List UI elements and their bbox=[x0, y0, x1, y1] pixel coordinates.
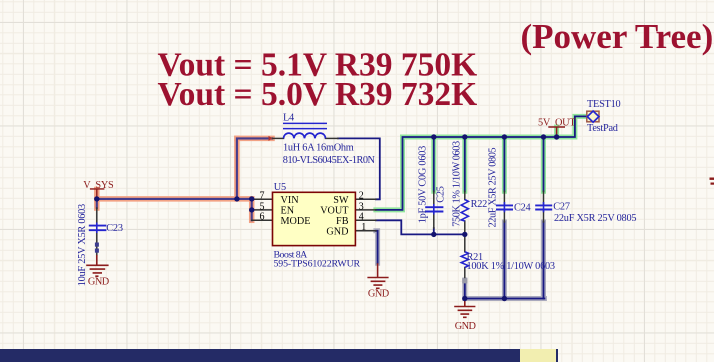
svg-text:SW: SW bbox=[333, 195, 349, 206]
svg-text:VIN: VIN bbox=[281, 195, 300, 206]
svg-text:L4: L4 bbox=[283, 113, 294, 124]
svg-text:10uF 25V X5R 0603: 10uF 25V X5R 0603 bbox=[77, 204, 88, 286]
svg-text:MODE: MODE bbox=[281, 216, 311, 227]
svg-text:GND: GND bbox=[88, 277, 110, 288]
svg-text:V_SYS: V_SYS bbox=[83, 180, 114, 191]
svg-text:22uF X5R 25V 0805: 22uF X5R 25V 0805 bbox=[487, 148, 498, 228]
svg-text:(Power Tree): (Power Tree) bbox=[521, 17, 714, 56]
svg-text:22uF X5R 25V 0805: 22uF X5R 25V 0805 bbox=[554, 213, 636, 224]
svg-text:U5: U5 bbox=[274, 182, 286, 193]
svg-text:1: 1 bbox=[361, 222, 366, 233]
svg-text:595-TPS61022RWUR: 595-TPS61022RWUR bbox=[274, 259, 361, 270]
svg-text:750K 1% 1/10W 0603: 750K 1% 1/10W 0603 bbox=[452, 141, 463, 227]
svg-text:Vout = 5.0V R39 732K: Vout = 5.0V R39 732K bbox=[158, 76, 478, 113]
svg-text:TestPad: TestPad bbox=[587, 123, 619, 134]
svg-text:GND: GND bbox=[368, 288, 390, 299]
svg-text:6: 6 bbox=[260, 212, 265, 223]
svg-text:C23: C23 bbox=[106, 223, 123, 234]
svg-text:R22: R22 bbox=[471, 199, 488, 210]
svg-text:7: 7 bbox=[260, 191, 265, 202]
svg-text:C25: C25 bbox=[436, 186, 447, 203]
svg-text:3: 3 bbox=[359, 201, 364, 212]
svg-text:GND: GND bbox=[326, 227, 348, 238]
svg-text:2: 2 bbox=[359, 191, 364, 202]
svg-text:TEST10: TEST10 bbox=[587, 99, 620, 110]
svg-text:VOUT: VOUT bbox=[320, 206, 349, 217]
svg-text:C27: C27 bbox=[553, 202, 570, 213]
svg-text:100K 1% 1/10W 0603: 100K 1% 1/10W 0603 bbox=[467, 261, 555, 272]
svg-text:EN: EN bbox=[281, 206, 295, 217]
svg-text:5V_OUT: 5V_OUT bbox=[538, 117, 576, 128]
svg-text:1uH 6A 16mOhm: 1uH 6A 16mOhm bbox=[283, 143, 354, 154]
svg-text:GND: GND bbox=[455, 321, 477, 332]
svg-text:5: 5 bbox=[260, 201, 265, 212]
svg-text:C24: C24 bbox=[514, 203, 531, 214]
svg-text:810-VLS6045EX-1R0N: 810-VLS6045EX-1R0N bbox=[283, 155, 376, 166]
svg-text:1pF 50V C0G 0603: 1pF 50V C0G 0603 bbox=[417, 146, 428, 223]
